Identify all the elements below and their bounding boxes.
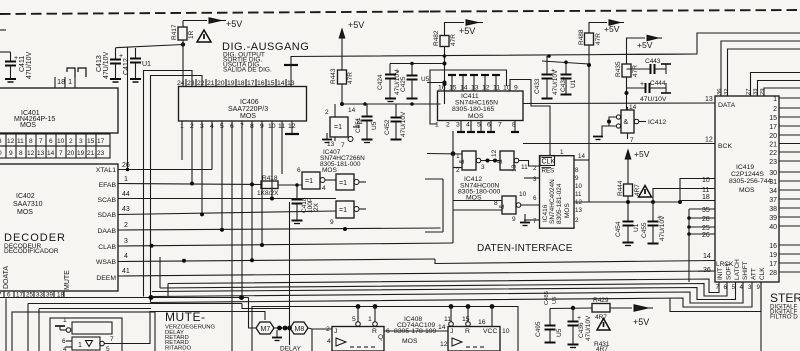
resistor R417 <box>171 21 195 45</box>
svg-text:12: 12 <box>440 341 448 348</box>
wire mute gate output <box>105 312 266 344</box>
svg-text:3: 3 <box>748 284 752 291</box>
svg-text:1K8/2X: 1K8/2X <box>257 190 279 197</box>
ground IC412d <box>593 126 609 140</box>
svg-text:7: 7 <box>716 284 720 291</box>
svg-text:MOS: MOS <box>564 203 571 218</box>
svg-text:8: 8 <box>29 138 33 145</box>
svg-text:33: 33 <box>36 292 43 299</box>
svg-text:47R: 47R <box>632 65 639 77</box>
svg-text:10: 10 <box>519 191 527 198</box>
svg-text:R429: R429 <box>593 297 609 304</box>
svg-text:40: 40 <box>769 224 777 231</box>
logic gate IC412d <box>607 104 666 144</box>
wire top bundle L1 <box>600 33 800 55</box>
svg-text:9: 9 <box>575 175 579 182</box>
logic gate mute a <box>55 317 112 334</box>
resistor R435 <box>615 38 639 110</box>
svg-text:9: 9 <box>512 216 516 223</box>
svg-text:6: 6 <box>487 122 491 129</box>
svg-text:2: 2 <box>575 217 579 224</box>
svg-text:41: 41 <box>122 268 130 275</box>
wire DAAB <box>118 227 441 232</box>
svg-text:11: 11 <box>521 164 528 171</box>
svg-text:1: 1 <box>435 122 439 129</box>
svg-text:2: 2 <box>325 109 329 116</box>
svg-text:+5V: +5V <box>604 24 620 34</box>
svg-text:MOS: MOS <box>17 209 33 216</box>
wire DEEM to IC419 pin36 <box>118 271 715 276</box>
svg-text:47U/10V: 47U/10V <box>103 51 110 79</box>
IC407 label block <box>320 149 365 174</box>
svg-text:23: 23 <box>769 159 777 166</box>
wire IC419 pin10 <box>680 177 715 202</box>
wire into FF1 <box>308 328 332 351</box>
resistor R488 <box>578 29 602 202</box>
wire IC408 vcc rail box <box>252 304 518 351</box>
IC416 right pin numbers <box>524 149 589 225</box>
svg-text:IC406: IC406 <box>240 99 259 106</box>
wire IC406 pin drops <box>182 121 282 351</box>
svg-text:U5: U5 <box>556 328 563 337</box>
XOR gate IC407c <box>336 174 366 190</box>
capacitor C434 <box>560 61 577 95</box>
IC406 bottom pin numbers <box>180 123 296 130</box>
svg-text:13: 13 <box>575 207 582 214</box>
IC402 SAA7310 DECODER <box>0 164 118 291</box>
svg-text:47U/10V: 47U/10V <box>400 111 407 137</box>
svg-text:8305-180-165: 8305-180-165 <box>452 106 495 113</box>
capacitor C495 <box>535 309 563 343</box>
svg-text:18: 18 <box>702 194 710 201</box>
svg-text:=1: =1 <box>334 124 342 131</box>
wire pin24 from R417 <box>182 45 184 87</box>
IC402 right pin labels <box>96 167 117 282</box>
svg-text:R: R <box>372 328 377 335</box>
svg-text:MOS: MOS <box>402 338 418 345</box>
svg-text:6: 6 <box>533 195 537 202</box>
svg-text:VCC: VCC <box>483 328 497 335</box>
svg-text:1: 1 <box>773 96 777 103</box>
svg-text:37: 37 <box>769 197 777 204</box>
node pin13 cap top <box>284 65 298 87</box>
svg-text:1: 1 <box>63 317 67 324</box>
MUTE delay box outer <box>12 312 155 351</box>
svg-text:Q: Q <box>378 334 383 341</box>
svg-text:29: 29 <box>760 89 766 95</box>
svg-text:47R: 47R <box>595 33 602 45</box>
svg-text:2X: 2X <box>313 202 320 211</box>
capacitor C418 <box>292 183 321 223</box>
svg-text:FILTRO D: FILTRO D <box>770 314 798 321</box>
NAND gate IC412a <box>456 151 500 174</box>
resistor R443 <box>330 68 354 104</box>
svg-text:22: 22 <box>769 150 777 157</box>
+5V arrow R482 <box>445 20 484 36</box>
svg-text:CLK: CLK <box>542 159 556 166</box>
svg-text:9: 9 <box>9 150 13 157</box>
svg-text:17: 17 <box>769 261 777 268</box>
wire W1 long top <box>291 54 697 65</box>
logic gate mute b <box>62 336 114 351</box>
svg-text:20: 20 <box>67 150 75 157</box>
svg-text:MOS: MOS <box>739 187 755 194</box>
svg-text:DECODIFICADOR: DECODIFICADOR <box>4 248 59 255</box>
svg-text:C436: C436 <box>578 322 585 338</box>
svg-text:8: 8 <box>19 150 23 157</box>
svg-text:IC412: IC412 <box>648 119 666 126</box>
svg-text:6: 6 <box>49 138 53 145</box>
wire under IC419 <box>760 282 762 351</box>
IC411 top pins <box>438 75 518 92</box>
wire IC419 pins 35 28 25 26 <box>687 207 715 282</box>
svg-text:31: 31 <box>769 179 777 186</box>
svg-text:SAA7220P/3: SAA7220P/3 <box>228 106 268 113</box>
XOR gate IC407b <box>297 167 336 192</box>
capacitor C413 <box>96 48 123 82</box>
svg-text:12: 12 <box>27 150 35 157</box>
svg-text:3: 3 <box>124 238 128 245</box>
svg-text:C433: C433 <box>534 78 541 94</box>
ground IC412c <box>520 214 530 226</box>
svg-text:36: 36 <box>703 267 711 274</box>
IC406 SAA7220P/3 <box>179 87 307 122</box>
svg-text:WSAB: WSAB <box>96 259 116 266</box>
svg-text:17: 17 <box>247 80 255 87</box>
warning triangle bottom <box>597 319 610 331</box>
svg-text:C495: C495 <box>535 321 542 337</box>
svg-text:5: 5 <box>106 346 110 351</box>
capacitor C425 <box>400 76 430 99</box>
svg-text:C425: C425 <box>400 76 407 92</box>
resistor R429 <box>592 297 632 321</box>
svg-text:22: 22 <box>197 80 205 87</box>
wire SCAB <box>118 197 336 201</box>
MUTE- label <box>165 310 215 351</box>
svg-text:7: 7 <box>498 122 502 129</box>
IC402 right pin numbers <box>122 162 130 275</box>
svg-text:20: 20 <box>217 80 225 87</box>
svg-text:SCAB: SCAB <box>97 197 116 204</box>
svg-text:2: 2 <box>446 122 450 129</box>
svg-text:14: 14 <box>277 80 285 87</box>
svg-text:1: 1 <box>368 316 372 323</box>
svg-text:12: 12 <box>705 137 713 144</box>
svg-text:1: 1 <box>78 342 82 349</box>
svg-text:4: 4 <box>740 284 744 291</box>
wire pin22 bend left <box>151 76 203 303</box>
op-amp style XOR gate IC407a top <box>325 102 363 149</box>
wire SDAB <box>118 211 336 216</box>
wire bus line B1 to pin7 <box>168 279 719 297</box>
+5V arrow bottom <box>633 305 653 327</box>
svg-text:3: 3 <box>456 122 460 129</box>
svg-text:11: 11 <box>575 191 582 198</box>
capacitor C412 <box>123 48 151 82</box>
svg-text:47U/10V: 47U/10V <box>659 215 666 241</box>
wire R443 node to caps line <box>342 102 441 106</box>
capacitor C424 <box>377 68 401 102</box>
label under M7M8 <box>280 346 301 351</box>
svg-text:15: 15 <box>267 80 275 87</box>
svg-text:18: 18 <box>57 292 64 299</box>
svg-text:C2P1244S: C2P1244S <box>731 171 764 178</box>
svg-text:9: 9 <box>514 85 518 92</box>
svg-text:R: R <box>465 328 470 335</box>
svg-text:EFAB: EFAB <box>99 182 117 189</box>
svg-text:IC402: IC402 <box>16 193 35 200</box>
wire BCK line <box>523 137 715 144</box>
svg-text:R418: R418 <box>262 175 278 182</box>
STEREO label <box>770 291 800 321</box>
wire EFAB <box>118 182 302 187</box>
wire CLAB <box>118 243 453 248</box>
svg-text:3: 3 <box>79 138 83 145</box>
svg-text:U5: U5 <box>552 297 558 304</box>
svg-text:1: 1 <box>124 176 128 183</box>
capacitor C455 <box>641 202 666 244</box>
resistor R444 <box>617 180 641 222</box>
svg-text:&: & <box>499 204 506 209</box>
+5V arrow R444 <box>625 149 650 184</box>
svg-text:C451: C451 <box>355 117 362 133</box>
svg-text:39: 39 <box>769 215 777 222</box>
svg-text:14: 14 <box>578 153 585 160</box>
svg-text:5: 5 <box>732 284 736 291</box>
wire bus line B4 to pin4 <box>152 282 744 303</box>
svg-text:IC416: IC416 <box>542 204 549 222</box>
node M7-M8 junctions <box>274 326 292 331</box>
svg-text:4: 4 <box>466 122 470 129</box>
svg-text:+: + <box>14 55 18 62</box>
svg-text:DATEN-INTERFACE: DATEN-INTERFACE <box>477 243 573 254</box>
svg-text:9: 9 <box>757 284 761 291</box>
svg-text:CLAB: CLAB <box>98 244 116 251</box>
svg-text:14: 14 <box>629 104 637 111</box>
svg-text:13: 13 <box>705 96 713 103</box>
svg-text:4: 4 <box>327 338 331 345</box>
wire bus line B6 to pin9 <box>670 282 761 312</box>
wire IC411 pin1-pin10 loop <box>427 70 507 124</box>
svg-text:28: 28 <box>702 216 710 223</box>
svg-text:SOFT: SOFT <box>726 263 733 280</box>
node pin12 cap bottom <box>285 121 299 134</box>
svg-text:32: 32 <box>724 89 730 95</box>
IC411 bottom pins <box>435 121 519 132</box>
IC401 MN4264P-15 <box>0 88 118 133</box>
wire bus line B5 to pin3 <box>151 282 753 307</box>
svg-text:MUTE-: MUTE- <box>165 310 206 324</box>
svg-text:3: 3 <box>533 176 537 183</box>
svg-text:1: 1 <box>68 77 72 86</box>
capacitor C485 small <box>544 291 558 305</box>
svg-text:13: 13 <box>511 164 518 172</box>
CLK net label box <box>540 156 555 166</box>
IC401 pin cells bottom <box>0 134 110 158</box>
wire DATA line <box>523 96 715 122</box>
svg-text:2: 2 <box>533 165 537 172</box>
svg-text:39: 39 <box>46 292 53 299</box>
svg-text:J: J <box>334 328 337 335</box>
svg-text:10: 10 <box>575 183 582 190</box>
IC406 top pin numbers <box>177 79 295 87</box>
svg-text:C424: C424 <box>377 74 384 90</box>
wire bottom-left staircase <box>6 299 290 351</box>
IC401 pin row top <box>55 68 86 88</box>
svg-text:15: 15 <box>769 115 777 122</box>
DIG.-AUSGANG label <box>222 41 309 74</box>
svg-text:CLK: CLK <box>759 267 766 280</box>
svg-text:47U/10V: 47U/10V <box>585 315 592 341</box>
svg-text:38: 38 <box>769 206 777 213</box>
svg-text:MOS: MOS <box>20 122 36 129</box>
ground under M7 <box>272 330 282 341</box>
svg-text:18: 18 <box>57 77 65 86</box>
svg-text:LATCH: LATCH <box>734 259 741 280</box>
svg-text:10: 10 <box>702 177 710 184</box>
svg-text:1: 1 <box>560 149 564 156</box>
svg-text:47U/10V: 47U/10V <box>26 51 33 79</box>
svg-text:26: 26 <box>122 162 130 169</box>
svg-text:34: 34 <box>769 188 777 195</box>
svg-text:12: 12 <box>482 85 490 92</box>
wire WSAB <box>118 258 435 263</box>
svg-text:R444: R444 <box>617 180 624 196</box>
svg-text:6: 6 <box>724 284 728 291</box>
wire top bundle L3 <box>728 49 800 96</box>
svg-text:5: 5 <box>477 122 481 129</box>
svg-text:U1: U1 <box>633 223 640 232</box>
svg-text:+5V: +5V <box>633 317 649 327</box>
svg-text:IC419: IC419 <box>736 164 754 171</box>
svg-text:DEEM: DEEM <box>96 275 116 282</box>
svg-text:36: 36 <box>717 89 723 95</box>
wire top bundle L2 <box>721 41 800 96</box>
svg-text:25: 25 <box>26 292 33 299</box>
svg-text:MOS: MOS <box>468 113 484 120</box>
IC419 top pin labels <box>717 89 766 95</box>
svg-text:U1: U1 <box>142 61 151 68</box>
svg-text:C443: C443 <box>645 58 661 65</box>
svg-text:INIT: INIT <box>717 268 724 280</box>
svg-text:DATA: DATA <box>718 102 736 109</box>
svg-text:16: 16 <box>257 80 265 87</box>
resistor R431 <box>594 341 610 351</box>
capacitor C454 <box>615 221 640 245</box>
connector M8 <box>290 322 308 334</box>
svg-text:8: 8 <box>575 167 579 174</box>
svg-text:17: 17 <box>769 124 777 131</box>
svg-text:C411: C411 <box>19 56 26 72</box>
wire pin23 bend left <box>144 71 193 297</box>
svg-text:30: 30 <box>769 170 777 177</box>
svg-text:DAAB: DAAB <box>97 228 116 235</box>
wire top bundle L4 <box>751 73 800 97</box>
ground C411 <box>5 79 16 82</box>
svg-text:14: 14 <box>47 150 55 157</box>
svg-text:R435: R435 <box>615 61 622 77</box>
wire W2 cap feed <box>390 62 445 75</box>
capacitor C444 <box>627 80 672 103</box>
capacitor C452 <box>384 104 407 140</box>
svg-text:14: 14 <box>703 253 711 260</box>
svg-text:C444: C444 <box>650 80 666 87</box>
warning triangle top <box>197 30 211 42</box>
svg-text:RES: RES <box>542 168 555 175</box>
svg-text:DELAY: DELAY <box>280 346 301 351</box>
connector M7 <box>256 322 274 334</box>
svg-text:C412: C412 <box>123 58 130 75</box>
svg-text:R417: R417 <box>171 24 178 40</box>
svg-text:+: + <box>577 315 581 322</box>
svg-text:MOS: MOS <box>322 167 337 174</box>
node N1 input junction <box>427 131 462 243</box>
svg-text:7: 7 <box>533 218 537 225</box>
svg-text:U5: U5 <box>371 121 378 130</box>
wire nand area stubs <box>425 179 443 232</box>
svg-text:12: 12 <box>491 149 498 157</box>
svg-text:27: 27 <box>746 89 752 95</box>
svg-text:4: 4 <box>322 185 326 192</box>
svg-text:C454: C454 <box>615 221 622 237</box>
svg-text:47U/10V: 47U/10V <box>640 96 667 103</box>
svg-text:ATT: ATT <box>751 268 758 280</box>
svg-text:8305-181-024: 8305-181-024 <box>556 183 563 224</box>
svg-text:18: 18 <box>237 80 245 87</box>
svg-text:2: 2 <box>773 106 777 113</box>
svg-text:+5V: +5V <box>226 19 242 29</box>
svg-text:=1: =1 <box>305 178 313 185</box>
svg-text:3: 3 <box>481 164 485 171</box>
svg-text:35: 35 <box>702 207 710 214</box>
wire LRCK long <box>435 259 715 264</box>
svg-text:+5V: +5V <box>634 149 650 159</box>
svg-text:SDAB: SDAB <box>97 212 116 219</box>
svg-text:C434: C434 <box>560 76 567 92</box>
capacitor C443 <box>627 58 672 74</box>
wire IC419 pin36 stub <box>698 270 715 272</box>
svg-text:4R7: 4R7 <box>595 314 607 321</box>
svg-text:R488: R488 <box>578 29 585 45</box>
capacitor C436 <box>568 308 593 348</box>
svg-text:XTAL1: XTAL1 <box>96 167 116 174</box>
svg-text:M7: M7 <box>261 326 271 333</box>
svg-text:14: 14 <box>348 107 356 114</box>
svg-text:19: 19 <box>77 150 85 157</box>
svg-text:BCK: BCK <box>718 143 732 150</box>
svg-text:15: 15 <box>87 138 95 145</box>
svg-text:23: 23 <box>97 150 105 157</box>
svg-text:C455: C455 <box>641 222 648 238</box>
wire FF1 to FF2 <box>384 324 448 331</box>
svg-text:C413: C413 <box>96 55 103 72</box>
svg-text:4R7: 4R7 <box>596 346 608 351</box>
svg-text:+5V: +5V <box>459 26 475 36</box>
svg-text:R482: R482 <box>433 30 440 46</box>
svg-text:&: & <box>497 159 504 164</box>
svg-text:2: 2 <box>124 222 128 229</box>
svg-text:M8: M8 <box>295 326 305 333</box>
svg-text:14: 14 <box>438 324 446 331</box>
NAND gate IC412b <box>491 149 540 172</box>
XOR gate IC407d <box>330 201 366 226</box>
+5V arrow R488 <box>589 20 624 34</box>
svg-text:C452: C452 <box>384 119 391 135</box>
wire vertical to M8 <box>289 202 291 345</box>
svg-text:6: 6 <box>297 167 301 174</box>
svg-text:7: 7 <box>341 142 345 149</box>
frame dashed top border <box>0 10 800 14</box>
